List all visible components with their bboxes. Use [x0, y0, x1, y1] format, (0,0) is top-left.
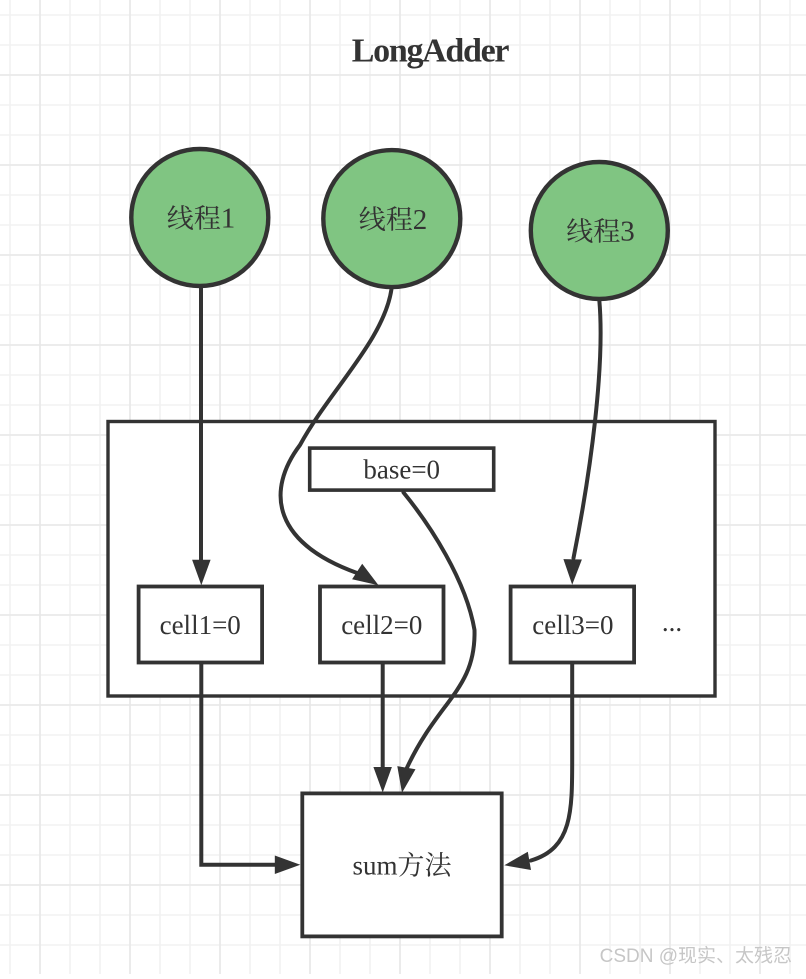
- wire arrow 线程2 to cell2: [281, 289, 392, 585]
- cell box cell1=0: [139, 587, 263, 663]
- container box (cells area): [108, 422, 715, 697]
- svg-text:2: 2: [413, 204, 428, 236]
- svg-text:cell3=0: cell3=0: [532, 610, 613, 640]
- wire arrow 线程1 to cell1: [192, 288, 211, 585]
- svg-text:1: 1: [221, 203, 236, 235]
- svg-text:base=0: base=0: [363, 455, 440, 485]
- wire arrow cell1 to sum: [201, 663, 300, 874]
- ellipsis ...: [662, 607, 682, 637]
- svg-text:LongAdder: LongAdder: [352, 33, 510, 70]
- title LongAdder: [352, 33, 510, 70]
- sum box sum方法: [302, 793, 501, 936]
- cell box cell3=0: [511, 587, 634, 663]
- wire arrow 线程3 to cell3: [563, 300, 600, 585]
- wire arrow cell3 to sum: [504, 663, 572, 870]
- watermark CSDN @现实、太残忍: [600, 946, 791, 967]
- svg-text:3: 3: [620, 216, 635, 248]
- wire arrow base to sum (s-curve): [397, 493, 474, 793]
- svg-text:CSDN @: CSDN @: [600, 946, 678, 967]
- cell box cell2=0: [320, 587, 444, 663]
- thread circle 线程2: [323, 150, 460, 287]
- thread circle 线程3: [531, 162, 668, 299]
- base box base=0: [310, 448, 494, 490]
- svg-text:...: ...: [662, 607, 682, 637]
- thread circle 线程1: [131, 149, 268, 286]
- svg-text:cell2=0: cell2=0: [341, 610, 422, 640]
- svg-text:sum: sum: [353, 851, 398, 881]
- svg-text:cell1=0: cell1=0: [160, 610, 241, 640]
- wire arrow cell2 to sum: [373, 663, 392, 793]
